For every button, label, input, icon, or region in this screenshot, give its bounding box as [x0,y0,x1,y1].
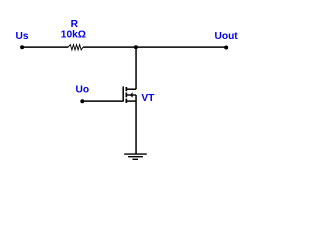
transistor VT channel middle stub [125,93,127,98]
node Uo terminal dot [80,99,84,103]
svg-text:10kΩ: 10kΩ [61,30,86,41]
node Uout terminal dot [224,46,228,50]
transistor VT body arrow [130,92,133,97]
transistor VT drain lead [126,88,136,90]
wire resistor to Uout [83,46,226,48]
svg-text:Uo: Uo [76,85,90,96]
wire junction to transistor drain [135,47,137,89]
ground bar 1 [124,153,147,155]
svg-text:R: R [71,19,79,30]
transistor VT body lead [127,94,136,96]
wire source to ground [135,95,137,154]
wire Uo to gate [82,100,123,102]
resistor R1 zigzag [68,45,83,50]
transistor VT channel top stub [125,87,127,91]
transistor VT gate bar [122,86,124,101]
ground bar 3 [133,158,139,160]
transistor VT source lead [126,100,136,102]
junction node dot [134,45,138,49]
transistor VT channel bottom stub [125,99,127,103]
node Us terminal dot [20,45,24,49]
svg-text:Us: Us [16,31,29,42]
svg-text:Uout: Uout [215,31,239,42]
svg-text:VT: VT [141,93,155,104]
ground bar 2 [128,156,143,158]
wire Us to resistor [22,46,68,48]
